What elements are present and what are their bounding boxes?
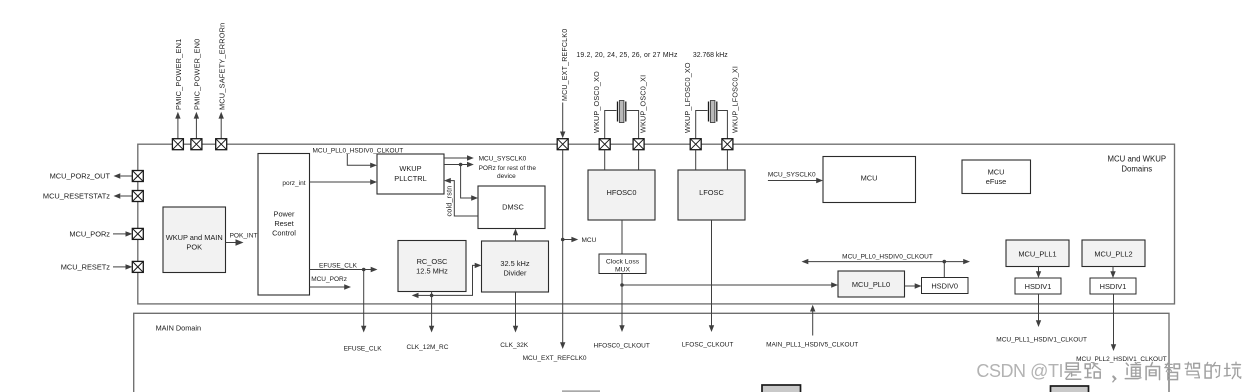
svg-text:MCU: MCU (861, 174, 878, 183)
svg-text:MCU_RESETSTATz: MCU_RESETSTATz (43, 192, 110, 201)
wire POK_INT (226, 239, 244, 245)
svg-text:MCU: MCU (988, 167, 1005, 176)
wire HFOSC0 stub XI (638, 150, 640, 170)
wire MCU_PLL2 to HSDIV1 (1110, 267, 1115, 279)
svg-text:WKUP_LFOSC0_XI: WKUP_LFOSC0_XI (730, 66, 739, 133)
pin MCU_SAFETY_ERRORn vertical label (217, 23, 226, 110)
block LFOSC (678, 170, 745, 220)
block RC_OSC 12.5 MHz (398, 241, 466, 292)
svg-text:PLLCTRL: PLLCTRL (394, 174, 426, 183)
svg-text:WKUP_OSC0_XI: WKUP_OSC0_XI (638, 75, 647, 133)
svg-text:WKUP: WKUP (399, 164, 421, 173)
block MCU_PLL2 (1082, 240, 1145, 267)
wire MCU_SYSCLK0 into MCU (768, 178, 823, 183)
svg-text:MCU_PORz_OUT: MCU_PORz_OUT (50, 172, 111, 181)
svg-text:WKUP_LFOSC0_XO: WKUP_LFOSC0_XO (683, 62, 692, 133)
wire MCU_SYSCLK0 out (444, 155, 474, 160)
wire MCU_PORz out (310, 284, 352, 289)
wire MCU_PLL0_HSDIV0_CLKOUT to WKUP PLLCTRL (347, 154, 377, 168)
label MCU_PLL2_HSDIV1_CLKOUT (1076, 356, 1167, 363)
svg-text:MCU_PLL0: MCU_PLL0 (852, 280, 890, 289)
svg-text:CLK_32K: CLK_32K (500, 342, 528, 349)
label CLK_32K (500, 342, 528, 349)
block MCU_PLL0 (838, 271, 905, 297)
block HFOSC0 (588, 170, 655, 220)
pad X-box WKUP_LFOSC0_XO (690, 139, 701, 150)
label 19.2, 20, 24, 25, 26, or 27 MHz (576, 52, 678, 59)
svg-text:PMIC_POWER_EN0: PMIC_POWER_EN0 (193, 39, 202, 110)
svg-text:LFOSC_CLKOUT: LFOSC_CLKOUT (682, 341, 734, 348)
wire LFOSC stub XO (695, 150, 697, 170)
svg-text:MAIN Domain: MAIN Domain (156, 324, 201, 333)
wire divider to DMSC (513, 229, 518, 242)
svg-text:POK_INT: POK_INT (230, 232, 258, 239)
svg-text:MCU_PLL0_HSDIV0_CLKOUT: MCU_PLL0_HSDIV0_CLKOUT (313, 147, 404, 154)
block Power Reset Control (258, 154, 310, 296)
wire branch to MCU label (563, 237, 579, 242)
pin PMIC_POWER_EN0 stem (194, 112, 199, 139)
wire MCU_PLL1 to HSDIV1 (1036, 267, 1041, 279)
svg-text:EFUSE_CLK: EFUSE_CLK (344, 345, 383, 352)
svg-text:MCU_PLL2_HSDIV1_CLKOUT: MCU_PLL2_HSDIV1_CLKOUT (1076, 356, 1167, 363)
label HFOSC0_CLKOUT (594, 343, 650, 350)
label MCU_SYSCLK0 (PLLCTRL) (479, 156, 527, 163)
label PORz for rest of the device (479, 165, 537, 180)
svg-text:HSDIV0: HSDIV0 (931, 282, 958, 291)
wire porz_int to WKUP PLLCTRL (310, 179, 378, 184)
wire CLK_32K down to MAIN (513, 292, 518, 333)
block DMSC (478, 186, 545, 229)
wire RC_OSC to divider (432, 263, 482, 296)
svg-text:19.2, 20, 24, 25, 26, or 27 MH: 19.2, 20, 24, 25, 26, or 27 MHz (576, 52, 678, 59)
svg-text:MCU and WKUP: MCU and WKUP (1108, 155, 1167, 164)
label MCU (net) (582, 237, 597, 244)
svg-text:Divider: Divider (504, 269, 528, 278)
pin WKUP_LFOSC0_XO vertical label (683, 62, 692, 133)
label MCU_EXT_REFCLK0 (MAIN) (523, 355, 587, 362)
svg-text:WKUP and MAIN: WKUP and MAIN (166, 233, 223, 242)
pin PMIC_POWER_EN1 vertical label (174, 39, 183, 110)
wire HFOSC0 stub XO (604, 150, 606, 170)
watermark CSDN @TI是路，通向智驾的坑 (976, 361, 1241, 382)
junction MCU_EXT_REFCLK0 to MCU (561, 238, 565, 242)
svg-text:Power: Power (274, 209, 295, 218)
pin MCU_PORz label (69, 230, 110, 239)
pin MCU_SAFETY_ERRORn stem (219, 112, 224, 139)
wire MAIN_PLL1_HSDIV5_CLKOUT up (810, 305, 815, 336)
block Clock Loss MUX (599, 254, 646, 274)
label MCU_PLL0_HSDIV0_CLKOUT (net) (842, 253, 933, 260)
partial block bottom (center) (762, 385, 801, 392)
block HSDIV1 (PLL2) (1090, 278, 1136, 294)
MAIN Domain boundary box (134, 313, 1169, 392)
svg-text:Clock Loss: Clock Loss (606, 258, 640, 265)
pin MCU_RESETSTATz label (43, 192, 110, 201)
svg-text:MCU_PLL1: MCU_PLL1 (1018, 250, 1056, 259)
label CLK_12M_RC (407, 344, 449, 351)
MCU and WKUP Domains boundary box (138, 144, 1175, 304)
crystal X2 (LFOSC) (709, 101, 717, 123)
partial block bottom (EFUSE area) (562, 390, 600, 392)
svg-text:HFOSC0: HFOSC0 (607, 188, 637, 197)
svg-text:Domains: Domains (1121, 165, 1152, 174)
pin MCU_PORz_OUT wire (114, 173, 133, 178)
pad X-box WKUP_OSC0_XI (633, 139, 644, 150)
wire MCU_PLL2_HSDIV1_CLKOUT down (1111, 294, 1116, 351)
svg-text:MCU_EXT_REFCLK0: MCU_EXT_REFCLK0 (523, 355, 587, 362)
wire crystal X1 left (605, 111, 617, 139)
svg-text:CSDN @TI: CSDN @TI (976, 361, 1063, 381)
svg-text:MCU_PLL0_HSDIV0_CLKOUT: MCU_PLL0_HSDIV0_CLKOUT (842, 253, 933, 260)
svg-text:MCU_PORz: MCU_PORz (311, 276, 347, 283)
label cold_rstn (444, 186, 453, 217)
wire PORz out (444, 162, 474, 167)
pad X-box MCU_PORz_OUT (132, 171, 143, 182)
svg-text:MUX: MUX (615, 266, 631, 273)
svg-text:MCU_PORz: MCU_PORz (69, 230, 110, 239)
label MCU and WKUP Domains (1108, 155, 1167, 174)
wire EFUSE_CLK (310, 267, 378, 272)
label LFOSC_CLKOUT (682, 341, 734, 348)
pad X-box WKUP_OSC0_XO (599, 139, 610, 150)
svg-text:MCU_PLL2: MCU_PLL2 (1094, 250, 1132, 259)
wire crystal X2 right (718, 111, 728, 139)
svg-text:HSDIV1: HSDIV1 (1025, 282, 1052, 291)
label MCU_PLL1_HSDIV1_CLKOUT (996, 337, 1087, 344)
wire crystal X1 right (627, 111, 639, 139)
block HSDIV0 (922, 278, 969, 294)
wire RC_OSC out left arrow (412, 293, 432, 298)
pad X-box MCU_SAFETY_ERRORn (216, 139, 227, 150)
wire crystal X2 left (696, 111, 708, 139)
wire LFOSC stub XI (726, 150, 728, 170)
svg-text:WKUP_OSC0_XO: WKUP_OSC0_XO (592, 71, 601, 133)
label MAIN_PLL1_HSDIV5_CLKOUT (766, 342, 858, 349)
svg-text:LFOSC: LFOSC (699, 188, 724, 197)
wire MCU_EXT_REFCLK0 down (560, 150, 565, 349)
svg-text:MCU_EXT_REFCLK0: MCU_EXT_REFCLK0 (562, 29, 569, 101)
block MCU eFuse (962, 160, 1031, 194)
wire MCU_PLL0 to HSDIV0 (905, 283, 922, 288)
svg-text:eFuse: eFuse (986, 177, 1007, 186)
svg-text:MCU_SYSCLK0: MCU_SYSCLK0 (479, 156, 527, 163)
svg-text:Control: Control (272, 228, 296, 237)
wire HFOSC0_CLKOUT down to MAIN (619, 285, 624, 332)
block 32.5 kHz Divider (482, 241, 549, 292)
junction RC_OSC output (430, 294, 434, 298)
svg-text:PORz for rest of the: PORz for rest of the (479, 165, 537, 172)
pin MCU_EXT_REFCLK0 stem (560, 103, 565, 139)
svg-text:MCU_PLL1_HSDIV1_CLKOUT: MCU_PLL1_HSDIV1_CLKOUT (996, 337, 1087, 344)
svg-text:MAIN_PLL1_HSDIV5_CLKOUT: MAIN_PLL1_HSDIV5_CLKOUT (766, 342, 858, 349)
svg-text:32.5 kHz: 32.5 kHz (500, 259, 529, 268)
wire MCU_PLL1_HSDIV1_CLKOUT down (1036, 294, 1041, 327)
svg-text:porz_int: porz_int (282, 180, 305, 187)
svg-text:MCU_SYSCLK0: MCU_SYSCLK0 (768, 171, 816, 178)
pin MCU_RESETz wire (113, 264, 132, 269)
pin PMIC_POWER_EN1 stem (175, 112, 180, 139)
label MCU_PORz (PRC) (311, 276, 347, 283)
svg-text:MCU: MCU (582, 237, 597, 244)
label 32.768 kHz (693, 52, 728, 59)
block WKUP and MAIN POK (163, 207, 226, 273)
pad X-box MCU_RESETz (132, 261, 143, 272)
pin MCU_RESETSTATz wire (114, 193, 133, 198)
label MCU_SYSCLK0 (MCU input) (768, 171, 816, 178)
label MAIN Domain (156, 324, 201, 333)
partial block bottom (right) (1051, 386, 1089, 392)
svg-text:MCU_RESETz: MCU_RESETz (61, 263, 111, 272)
svg-text:CLK_12M_RC: CLK_12M_RC (407, 344, 449, 351)
wire CLK_12M_RC down to MAIN (429, 295, 434, 332)
svg-text:Reset: Reset (274, 219, 293, 228)
wire cold_rstn (444, 178, 478, 216)
svg-text:12.5 MHz: 12.5 MHz (416, 267, 448, 276)
label EFUSE_CLK (PRC) (319, 262, 358, 269)
pad X-box WKUP_LFOSC0_XI (722, 139, 733, 150)
svg-text:POK: POK (186, 243, 202, 252)
wire PORz branch to DMSC (461, 165, 478, 201)
svg-text:cold_rstn: cold_rstn (444, 186, 453, 217)
pad X-box PMIC_POWER_EN0 (191, 139, 202, 150)
svg-text:HFOSC0_CLKOUT: HFOSC0_CLKOUT (594, 343, 650, 350)
pin WKUP_OSC0_XI vertical label (638, 75, 647, 133)
svg-text:32.768 kHz: 32.768 kHz (693, 52, 728, 59)
wire MCU_PLL0_HSDIV0_CLKOUT double arrow (802, 259, 971, 264)
wire EFUSE_CLK down to MAIN (361, 270, 366, 333)
svg-text:HSDIV1: HSDIV1 (1100, 282, 1127, 291)
svg-text:device: device (497, 173, 516, 180)
svg-text:EFUSE_CLK: EFUSE_CLK (319, 262, 358, 269)
svg-text:DMSC: DMSC (502, 203, 524, 212)
pin WKUP_LFOSC0_XI vertical label (730, 66, 739, 133)
crystal X1 (HFOSC0) (618, 101, 626, 123)
pin MCU_EXT_REFCLK0 vertical label (562, 29, 569, 101)
block HSDIV1 (PLL1) (1015, 278, 1061, 294)
block MCU (823, 157, 916, 203)
pad X-box MCU_RESETSTATz (132, 191, 143, 202)
svg-text:PMIC_POWER_EN1: PMIC_POWER_EN1 (174, 39, 183, 110)
svg-text:MCU_SAFETY_ERRORn: MCU_SAFETY_ERRORn (217, 23, 226, 110)
wire HFOSC0 to Clock Loss MUX (621, 220, 623, 254)
wire HSDIV0 to net (943, 262, 945, 278)
block MCU_PLL1 (1006, 240, 1069, 267)
pad X-box MCU_EXT_REFCLK0 (557, 139, 568, 150)
pad X-box PMIC_POWER_EN1 (172, 139, 183, 150)
pin PMIC_POWER_EN0 vertical label (193, 39, 202, 110)
wire LFOSC_CLKOUT down to MAIN (709, 220, 714, 332)
pin WKUP_OSC0_XO vertical label (592, 71, 601, 133)
junction PORz branch (459, 163, 463, 167)
block WKUP PLLCTRL (377, 154, 444, 194)
label EFUSE_CLK (MAIN) (344, 345, 383, 352)
junction EFUSE_CLK (362, 268, 366, 272)
wire RC_OSC output stub (431, 292, 433, 296)
junction HFOSC0 net (620, 283, 624, 287)
pin MCU_PORz wire (113, 231, 132, 236)
label porz_int (282, 180, 305, 187)
svg-text:RC_OSC: RC_OSC (417, 257, 448, 266)
pin MCU_PORz_OUT label (50, 172, 111, 181)
pad X-box MCU_PORz (132, 228, 143, 239)
junction HSDIV0 net (943, 260, 947, 264)
wire Clock Loss MUX down (621, 274, 623, 286)
label MCU_PLL0_HSDIV0_CLKOUT (top) (313, 147, 404, 154)
label POK_INT (230, 232, 258, 239)
pin MCU_RESETz label (61, 263, 111, 272)
wire HFOSC0 net to MCU_PLL0 (622, 282, 838, 287)
